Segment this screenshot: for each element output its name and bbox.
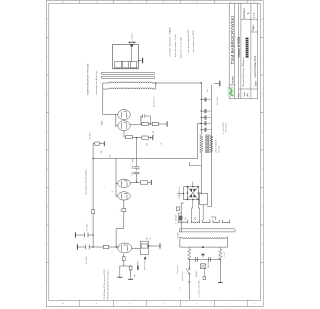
svg-text:Date:: Date: — [255, 80, 258, 86]
pot ground bar — [137, 266, 139, 269]
power transformer primary box — [180, 237, 228, 247]
ground driver — [150, 180, 152, 184]
svg-text:une releve 220v 50hz: une releve 220v 50hz — [198, 280, 200, 297]
wire colB — [124, 131, 142, 138]
primary tap mark — [202, 246, 204, 248]
wire secondary to speaker — [131, 47, 133, 62]
svg-text:+ 10uF depart: + 10uF depart — [225, 122, 228, 134]
svg-text:4: 4 — [262, 169, 264, 170]
output transformer secondary section 3 — [130, 62, 137, 69]
output tube V3b — [118, 110, 131, 120]
svg-text:temps de montee : 10 uS: temps de montee : 10 uS — [174, 34, 177, 57]
choke L1 winding B — [210, 135, 213, 153]
wiper wire — [144, 259, 146, 261]
fuse — [201, 264, 206, 269]
thermistor zigzag line1 — [188, 247, 191, 259]
svg-text:alimentation 10k 220 regulee: alimentation 10k 220 regulee — [84, 168, 87, 195]
svg-text:4: 4 — [47, 169, 49, 170]
title block outline — [229, 3, 257, 99]
grid network — [123, 254, 125, 257]
svg-text:0 - 1: 0 - 1 — [180, 287, 182, 291]
wire + dot — [148, 137, 152, 139]
svg-text:interrupteur: interrupteur — [176, 264, 179, 274]
svg-text:350v: 350v — [195, 216, 197, 220]
anode bus — [115, 115, 117, 127]
svg-text:Titre:: Titre: — [237, 92, 240, 97]
wire — [148, 123, 152, 125]
S3 wire to box — [202, 205, 204, 220]
thermistor zigzag line2 — [219, 247, 222, 259]
svg-text:10k: 10k — [146, 237, 148, 240]
bypass cap colA — [141, 114, 150, 124]
svg-text:CL-60: CL-60 — [224, 252, 226, 257]
secondary S3 — [203, 220, 210, 223]
svg-text:10 ohms 1W: 10 ohms 1W — [154, 97, 156, 107]
X caps across mains — [189, 258, 220, 260]
output transformer secondary section 1 — [115, 62, 122, 69]
svg-text:1k 5W: 1k 5W — [153, 130, 155, 135]
svg-text:distorsion <1% a 1 watt: distorsion <1% a 1 watt — [180, 37, 183, 58]
svg-text:6,3v: 6,3v — [185, 217, 187, 220]
svg-text:self 10H 200mA: self 10H 200mA — [215, 139, 218, 153]
svg-text:A4: A4 — [246, 93, 250, 97]
svg-text:7: 7 — [47, 56, 49, 57]
wire bridge plus stub — [192, 182, 194, 187]
svg-text:pour demarrage tube 5U4: pour demarrage tube 5U4 — [187, 29, 190, 53]
output tube V3a — [118, 121, 131, 131]
svg-text:6: 6 — [262, 94, 264, 95]
power transformer core — [179, 229, 235, 232]
wire bracket — [189, 163, 200, 166]
frame row ticks right — [80, 1, 248, 4]
bridge diode diagonals — [187, 187, 198, 200]
AC line 1 — [188, 259, 190, 299]
driver cathode resistor — [130, 181, 140, 184]
frame outer border — [46, 1, 263, 307]
svg-text:4 x 1N4007: 4 x 1N4007 — [176, 215, 178, 224]
output transformer secondary enclosure — [113, 45, 139, 69]
svg-text:8: 8 — [262, 19, 264, 20]
node below secondary — [138, 60, 140, 62]
svg-text:4 ohms: 4 ohms — [132, 33, 134, 40]
sheet group: landscape coords rotated -90deg — [46, 1, 264, 307]
coupling wire from input plate — [116, 212, 124, 247]
svg-text:47n 63v: 47n 63v — [140, 115, 142, 121]
aux comp — [176, 207, 179, 211]
svg-text:5998: 5998 — [101, 120, 103, 126]
bridge AC bus — [178, 187, 188, 200]
aux box — [203, 277, 206, 280]
node pot output — [148, 245, 149, 246]
svg-text:100n: 100n — [132, 172, 134, 176]
resistor RB2 — [142, 136, 149, 139]
svg-text:ajust polar.: ajust polar. — [143, 261, 146, 270]
svg-text:250mA: 250mA — [195, 271, 198, 277]
svg-text:classe A 5998: classe A 5998 — [237, 36, 241, 57]
node on top rail — [92, 158, 93, 159]
secondary S4 — [213, 220, 219, 223]
wire stub — [132, 159, 134, 162]
rail end: dropper + ground — [93, 143, 95, 145]
svg-text:A: A — [246, 12, 250, 14]
primary winding bumps — [180, 237, 228, 238]
wire — [158, 123, 166, 125]
choke L1 winding A — [200, 135, 203, 153]
cathode column A wire — [130, 123, 142, 126]
svg-text:4Ky: 4Ky — [101, 150, 103, 153]
svg-text:lundi 19 février 2013: lundi 19 février 2013 — [254, 55, 257, 77]
svg-text:T1 240 volts 50 Hz primair: T1 240 volts 50 Hz primaire 230 V — [103, 268, 106, 299]
S1 wire to standby — [179, 213, 182, 220]
driver tube V2a — [118, 192, 131, 200]
pot wiper arrow — [144, 256, 147, 259]
choke core bar — [206, 135, 209, 153]
plate resistor input tube — [93, 246, 103, 248]
secondary S5 — [222, 220, 229, 223]
bridge rectifier D1 outline — [187, 187, 198, 200]
wire primary bottom to B+ rail — [153, 83, 202, 89]
svg-text:T2 6000 volts 600 Hz second: T2 6000 volts 600 Hz secondaire — [106, 269, 109, 299]
input tube V1 — [117, 243, 132, 253]
polarity mark — [201, 254, 204, 256]
secondary S2 — [191, 220, 199, 223]
svg-text:STANDBY dk 1: STANDBY dk 1 — [178, 186, 181, 198]
ground colB — [152, 136, 154, 140]
resistor RA2 — [152, 122, 158, 125]
S4 wire — [211, 217, 216, 220]
tube internals — [116, 112, 127, 129]
svg-text:50 ohms: 50 ohms — [218, 146, 220, 153]
cathode pot below V1 — [132, 246, 160, 249]
svg-text:470: 470 — [147, 143, 149, 146]
pot ground wire — [137, 262, 139, 267]
output transformer core — [101, 76, 154, 78]
frame column ticks top — [46, 38, 49, 263]
svg-text:4 x 47uF 450V: 4 x 47uF 450V — [223, 122, 225, 134]
B+ rail 1 wire left — [200, 153, 202, 194]
svg-text:7: 7 — [262, 56, 264, 57]
svg-text:log: log — [149, 237, 151, 239]
line2 terminal bar — [219, 282, 222, 284]
speaker LS1 — [129, 42, 135, 46]
coupling line — [136, 138, 138, 182]
B+ rail 1 wire right — [200, 83, 202, 135]
wire bridge minus to rail — [198, 192, 201, 194]
output transformer secondary section 2 — [123, 62, 129, 69]
mains switch — [189, 273, 191, 275]
svg-text:1 / 1: 1 / 1 — [252, 12, 256, 18]
input terminal stub 2 — [76, 234, 94, 236]
svg-text:puis remplacer par GZ34: puis remplacer par GZ34 — [193, 30, 195, 53]
svg-text:Page:: Page: — [252, 24, 255, 31]
svg-text:marche arret: marche arret — [181, 271, 184, 282]
title block logo — [228, 87, 234, 97]
svg-text:5: 5 — [262, 131, 264, 132]
driver internals — [116, 181, 127, 199]
wire feed to rail1 — [197, 124, 201, 159]
svg-text:HY5000: HY5000 — [178, 233, 180, 240]
resistor RA1 — [142, 122, 149, 125]
svg-text:47uF 450v: 47uF 450v — [217, 96, 219, 105]
input grounds — [130, 275, 132, 279]
frame column ticks bottom — [260, 38, 263, 263]
svg-text:6: 6 — [47, 94, 49, 95]
svg-text:47n 400V: 47n 400V — [87, 223, 89, 231]
svg-text:1k: 1k — [120, 210, 122, 212]
ground return wire — [207, 85, 211, 206]
wire anode to primary top — [103, 83, 116, 115]
plug circle — [188, 281, 190, 283]
svg-text:1uF 400V: 1uF 400V — [86, 255, 88, 264]
svg-text:Numéro du Document / Référence: Numéro du Document / Référence: — [242, 56, 245, 86]
title block texts — [230, 8, 257, 98]
neon lamp line — [181, 203, 183, 232]
svg-text:2: 2 — [262, 244, 264, 245]
cathode column B resistor — [126, 136, 133, 139]
HT wires to bridge — [191, 200, 199, 221]
node on B+ rail — [201, 123, 202, 124]
secondary S1 — [179, 220, 188, 223]
labels — [176, 252, 226, 297]
svg-text:8: 8 — [47, 19, 49, 20]
notes top left — [103, 268, 109, 299]
B+ feed drop wire and grid bus — [93, 159, 197, 197]
svg-text:1: 1 — [262, 281, 264, 282]
svg-text:3: 3 — [262, 206, 264, 207]
output transformer primary winding 1 — [109, 88, 153, 89]
filter capacitors C5-C9 (polarized) — [201, 100, 211, 130]
node rail to primary — [201, 82, 203, 84]
ground colA — [166, 122, 168, 127]
secondary join wire — [115, 61, 137, 63]
svg-text:4K7: 4K7 — [110, 154, 112, 157]
frame inner border — [49, 3, 261, 300]
svg-text:53: 53 — [161, 143, 163, 145]
AC line 2 — [219, 259, 221, 282]
fuse box on rail — [92, 210, 95, 214]
grid wire left of driver — [123, 200, 125, 208]
svg-text:1: 1 — [47, 281, 49, 282]
coupling caps C3 C4 — [134, 167, 139, 174]
frame row ticks left — [80, 300, 248, 306]
output transformer primary winding 2 — [109, 82, 153, 83]
svg-text:TRANSFORMATEUR TYPE 8000: TRANSFORMATEUR TYPE 8000 — [86, 63, 89, 95]
frame coordinate digits — [47, 1, 264, 304]
input terminal stub 1 — [78, 246, 94, 248]
svg-text:Auteur:: Auteur: — [230, 75, 234, 84]
spec notes right middle — [168, 27, 195, 58]
bridge diodes and junction dots — [187, 186, 200, 201]
svg-text:2: 2 — [47, 244, 49, 245]
svg-text:2A 250V: 2A 250V — [207, 260, 210, 268]
secondary terminal bar — [142, 58, 144, 62]
svg-text:3: 3 — [47, 206, 49, 207]
output transformer T2 label — [86, 63, 98, 95]
top supply rail — [92, 144, 94, 247]
svg-text:si inversion des fils du h.p.: si inversion des fils du h.p. — [95, 70, 98, 95]
svg-text:TSM BABROCRYWSKI: TSM BABROCRYWSKI — [230, 16, 235, 64]
svg-text:5: 5 — [47, 131, 49, 132]
svg-text:1uF 400V: 1uF 400V — [90, 131, 92, 140]
B+ rail 2 end: stub to square and ground — [214, 83, 220, 85]
driver tube V2b — [118, 179, 131, 187]
grid stopper box — [122, 209, 126, 212]
rectifier module box — [200, 193, 208, 205]
svg-text:sensibilite haut-parleur : 92d: sensibilite haut-parleur : 92dB/W — [168, 27, 171, 56]
